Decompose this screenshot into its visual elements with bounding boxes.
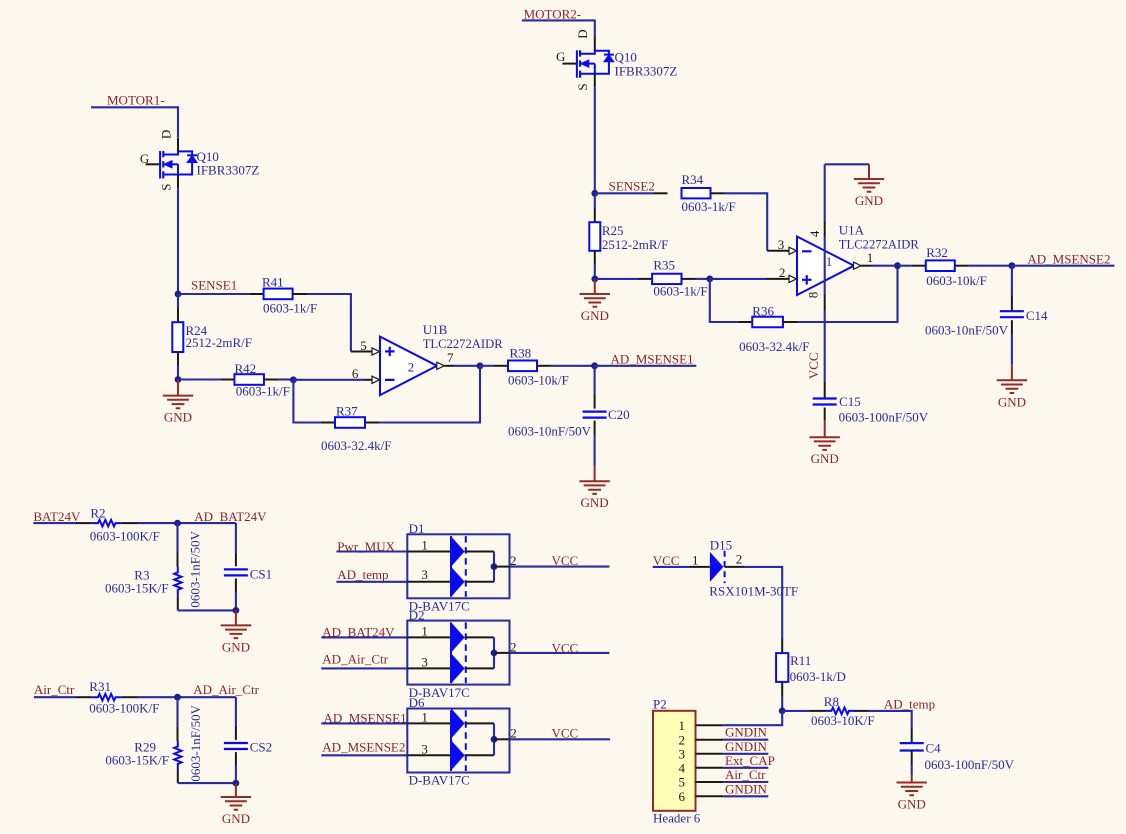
resistor R38	[480, 365, 494, 367]
svg-text:0603-1k/F: 0603-1k/F	[263, 300, 317, 315]
svg-text:Q10: Q10	[615, 50, 637, 65]
svg-text:0603-10nF/50V: 0603-10nF/50V	[508, 424, 592, 439]
svg-text:VCC: VCC	[552, 641, 579, 656]
svg-text:C20: C20	[608, 407, 630, 422]
svg-text:AD_MSENSE1: AD_MSENSE1	[611, 352, 694, 367]
svg-text:R11: R11	[790, 653, 811, 668]
svg-text:0603-1k/D: 0603-1k/D	[790, 669, 846, 684]
svg-text:VCC: VCC	[806, 352, 821, 379]
svg-text:0603-10k/F: 0603-10k/F	[926, 273, 987, 288]
svg-text:GNDIN: GNDIN	[725, 781, 767, 796]
svg-text:GND: GND	[898, 797, 926, 812]
node SENSE2 junction	[591, 190, 598, 197]
node CS1 bottom junction	[233, 607, 240, 614]
svg-text:D6: D6	[409, 695, 425, 710]
svg-text:Header 6: Header 6	[653, 811, 701, 826]
net label GNDIN at P2 pin 3	[723, 753, 768, 755]
svg-text:2: 2	[679, 732, 686, 747]
svg-text:GND: GND	[581, 495, 609, 510]
wire Air_Ctr net	[34, 696, 76, 698]
pin 3 of P2	[696, 753, 724, 755]
svg-text:VCC: VCC	[552, 726, 579, 741]
svg-text:G: G	[556, 49, 565, 64]
op-amp U1A TLC2272AIDR	[797, 237, 854, 296]
svg-text:AD_BAT24V: AD_BAT24V	[194, 509, 267, 524]
svg-text:R37: R37	[336, 404, 358, 419]
svg-text:R8: R8	[824, 694, 839, 709]
svg-text:5: 5	[360, 338, 367, 353]
svg-text:D-BAV17C: D-BAV17C	[409, 773, 470, 788]
wire AD_BAT24V to D2 pin1	[321, 636, 407, 638]
svg-text:Air_Ctr: Air_Ctr	[725, 767, 766, 782]
svg-text:C4: C4	[926, 741, 942, 756]
resistor R11	[781, 639, 783, 654]
diode D1 D-BAV17C	[407, 534, 509, 598]
svg-text:1: 1	[826, 254, 833, 269]
svg-text:0603-1nF/50V: 0603-1nF/50V	[188, 530, 203, 607]
resistor R34	[595, 192, 654, 194]
svg-text:2: 2	[736, 552, 743, 567]
svg-text:3: 3	[778, 237, 785, 252]
svg-text:GND: GND	[998, 394, 1026, 409]
capacitor CS1	[235, 523, 237, 553]
svg-text:Ext_CAP: Ext_CAP	[725, 753, 775, 768]
svg-text:C14: C14	[1026, 308, 1048, 323]
svg-text:0603-15K/F: 0603-15K/F	[105, 580, 169, 595]
node SENSE1 junction	[175, 291, 182, 298]
wire R41 to U1B pin5	[307, 294, 351, 352]
svg-text:R2: R2	[90, 505, 105, 520]
svg-text:SENSE2: SENSE2	[609, 179, 655, 194]
wire MOTOR1- net	[91, 107, 178, 137]
capacitor C15	[824, 382, 826, 399]
svg-text:0603-32.4k/F: 0603-32.4k/F	[321, 438, 391, 453]
resistor R36 feedback	[710, 279, 739, 322]
svg-text:2512-2mR/F: 2512-2mR/F	[602, 237, 668, 252]
wire VCC to D15	[653, 566, 690, 568]
resistor R24	[177, 294, 179, 308]
ground below R25	[594, 279, 596, 294]
svg-text:0603-1k/F: 0603-1k/F	[682, 199, 736, 214]
svg-text:R35: R35	[653, 258, 675, 273]
svg-text:CS2: CS2	[250, 739, 272, 754]
svg-text:R25: R25	[602, 223, 624, 238]
wire AD_MSENSE1 net	[595, 365, 697, 367]
svg-text:0603-100K/F: 0603-100K/F	[89, 701, 159, 716]
node AD_MSENSE2 junction	[1009, 262, 1016, 269]
wire AD_MSENSE2 to D6 pin3	[321, 754, 407, 756]
svg-text:0603-1nF/50V: 0603-1nF/50V	[188, 704, 203, 781]
svg-text:D: D	[158, 130, 173, 139]
pin 3 of U1A	[767, 250, 789, 252]
resistor R37 feedback	[293, 380, 321, 423]
svg-text:AD_Air_Ctr: AD_Air_Ctr	[322, 652, 388, 667]
diode D15 RSX101M-30TF	[690, 566, 710, 568]
wire Q10 source to SENSE1 node	[177, 188, 179, 294]
node AD_MSENSE1 junction	[591, 362, 598, 369]
resistor R8	[782, 710, 810, 712]
svg-text:3: 3	[421, 741, 428, 756]
resistor R32	[898, 265, 912, 267]
pin 8 of U1A	[824, 295, 826, 311]
svg-text:2: 2	[408, 359, 415, 374]
svg-text:GNDIN: GNDIN	[725, 725, 767, 740]
pin 2 of U1A	[766, 278, 789, 280]
capacitor C4	[911, 728, 913, 743]
svg-text:AD_MSENSE2: AD_MSENSE2	[322, 740, 405, 755]
svg-text:RSX101M-30TF: RSX101M-30TF	[709, 583, 798, 598]
pin 7 output of U1B	[437, 362, 445, 369]
svg-text:0603-1k/F: 0603-1k/F	[653, 284, 707, 299]
transistor Q10 (right MOSFET, IFBR3307Z)	[562, 63, 577, 65]
svg-text:S: S	[158, 183, 173, 190]
svg-text:SENSE1: SENSE1	[191, 278, 237, 293]
svg-text:CS1: CS1	[250, 567, 272, 582]
svg-text:1: 1	[421, 710, 428, 725]
svg-text:D: D	[575, 29, 590, 38]
svg-text:GND: GND	[855, 193, 883, 208]
svg-text:D15: D15	[710, 538, 732, 553]
wire to AD_Air_Ctr node	[137, 696, 236, 698]
svg-text:C15: C15	[839, 394, 861, 409]
transistor Q10 (left MOSFET, IFBR3307Z)	[146, 163, 161, 165]
pin 2 of P2	[696, 739, 724, 741]
svg-text:AD_temp: AD_temp	[337, 567, 388, 582]
pin 4 of U1A	[824, 222, 826, 237]
node U1B output junction	[477, 362, 484, 369]
diode D2 D-BAV17C	[407, 621, 509, 685]
wire SENSE1 to R41	[178, 293, 249, 295]
svg-text:0603-10K/F: 0603-10K/F	[811, 713, 875, 728]
wire D2 pin2 to VCC	[510, 652, 610, 654]
svg-text:S: S	[575, 83, 590, 90]
node SENSE2 low junction	[591, 276, 598, 283]
wire R42 to U1B pin6	[278, 378, 293, 380]
svg-text:R32: R32	[926, 245, 948, 260]
connector P2 Header 6	[653, 711, 696, 811]
wire D15 cathode down to R11	[744, 567, 782, 639]
node CS2 bottom junction	[233, 780, 240, 787]
svg-text:IFBR3307Z: IFBR3307Z	[197, 162, 260, 177]
svg-text:VCC: VCC	[552, 553, 579, 568]
svg-text:Air_Ctr: Air_Ctr	[34, 682, 75, 697]
wire D1 pin2 to VCC	[510, 566, 610, 568]
svg-text:3: 3	[421, 655, 428, 670]
svg-text:0603-10k/F: 0603-10k/F	[508, 372, 569, 387]
node R11 bottom junction	[779, 708, 786, 715]
wire to AD_BAT24V node	[137, 522, 236, 524]
wire AD_MSENSE2 net	[1012, 265, 1115, 267]
svg-text:R42: R42	[235, 361, 257, 376]
svg-text:6: 6	[679, 789, 686, 804]
pin 6 of U1B	[364, 379, 372, 381]
svg-text:0603-100nF/50V: 0603-100nF/50V	[925, 757, 1015, 772]
wire U1A power rail pin4 to GND	[825, 163, 869, 165]
capacitor C14	[1011, 266, 1013, 296]
svg-text:GND: GND	[811, 451, 839, 466]
svg-text:GND: GND	[164, 410, 192, 425]
svg-text:VCC: VCC	[653, 553, 680, 568]
svg-text:GND: GND	[222, 811, 250, 826]
ground above U1A	[868, 164, 870, 179]
wire Pwr_MUX net	[336, 550, 407, 552]
svg-text:2: 2	[779, 265, 786, 280]
ground below C4	[911, 775, 913, 783]
svg-text:6: 6	[352, 366, 359, 381]
svg-text:U1B: U1B	[423, 322, 448, 337]
resistor R42	[178, 378, 220, 380]
resistor R35	[595, 278, 638, 280]
svg-text:0603-100nF/50V: 0603-100nF/50V	[839, 410, 929, 425]
capacitor CS2	[235, 697, 237, 726]
svg-text:5: 5	[679, 775, 686, 790]
svg-text:IFBR3307Z: IFBR3307Z	[615, 64, 678, 79]
svg-text:D1: D1	[409, 521, 425, 536]
ground below C14	[1011, 364, 1013, 380]
svg-text:U1A: U1A	[839, 223, 865, 238]
wire D6 pin2 to VCC	[510, 738, 610, 740]
wire P2 pin1 to R11 node	[723, 711, 782, 725]
svg-text:4: 4	[807, 230, 822, 237]
svg-text:R41: R41	[262, 274, 284, 289]
svg-text:0603-15K/F: 0603-15K/F	[105, 753, 169, 768]
svg-text:0603-1k/F: 0603-1k/F	[236, 384, 290, 399]
wire R29 bottom to CS2 bottom	[178, 782, 236, 784]
svg-text:1: 1	[692, 553, 699, 568]
net label GNDIN at P2 pin 2	[723, 739, 768, 741]
svg-text:4: 4	[679, 760, 686, 775]
ground below C15	[824, 420, 826, 437]
wire U1A rail through amp	[824, 237, 826, 296]
svg-text:GNDIN: GNDIN	[725, 739, 767, 754]
svg-text:AD_Air_Ctr: AD_Air_Ctr	[193, 682, 259, 697]
pin 1 output of U1A	[854, 262, 862, 269]
wire AD_temp to D1 pin3	[336, 581, 407, 583]
node R35 output junction	[706, 276, 713, 283]
svg-text:GND: GND	[222, 639, 250, 654]
svg-text:0603-10nF/50V: 0603-10nF/50V	[925, 322, 1009, 337]
svg-text:G: G	[140, 151, 149, 166]
svg-text:AD_MSENSE2: AD_MSENSE2	[1027, 251, 1110, 266]
svg-text:R31: R31	[89, 679, 111, 694]
wire R35 to U1A pin2	[696, 278, 710, 280]
node AD_Air_Ctr junction	[174, 694, 181, 701]
svg-text:0603-32.4k/F: 0603-32.4k/F	[739, 339, 809, 354]
wire R8 to AD_temp	[868, 711, 912, 728]
svg-text:1: 1	[421, 624, 428, 639]
resistor R3	[176, 523, 178, 552]
svg-text:TLC2272AIDR: TLC2272AIDR	[839, 237, 919, 252]
ground symbol below R24	[177, 380, 179, 396]
svg-text:8: 8	[806, 292, 821, 299]
svg-text:R36: R36	[752, 304, 774, 319]
resistor R29	[176, 697, 178, 726]
svg-text:R38: R38	[510, 345, 532, 360]
resistor R41	[249, 293, 263, 295]
wire R34 to U1A pin3	[725, 193, 768, 251]
ground below CS2	[235, 783, 237, 797]
node feedback junction at R42 output	[290, 376, 297, 383]
svg-text:1: 1	[679, 718, 686, 733]
wire MOTOR2- net	[522, 20, 595, 37]
pin 4 of P2	[696, 767, 724, 769]
wire R3 bottom to CS1 bottom	[178, 609, 236, 611]
resistor R25	[594, 193, 596, 208]
capacitor C20	[594, 366, 596, 394]
svg-text:R34: R34	[682, 172, 704, 187]
svg-text:AD_temp: AD_temp	[884, 697, 935, 712]
svg-text:P2: P2	[653, 696, 667, 711]
ground below C20	[594, 466, 596, 482]
op-amp U1B TLC2272AIDR	[380, 337, 437, 396]
svg-text:3: 3	[421, 567, 428, 582]
svg-text:1: 1	[867, 250, 874, 265]
node SENSE1 low side junction	[175, 376, 182, 383]
wire U1B output	[454, 365, 481, 367]
wire rail to C15	[824, 311, 826, 383]
node U1A output junction	[894, 262, 901, 269]
pin 6 of P2	[696, 795, 724, 797]
pin 1 of P2	[696, 724, 724, 726]
svg-text:BAT24V: BAT24V	[33, 509, 81, 524]
svg-text:2512-2mR/F: 2512-2mR/F	[186, 335, 252, 350]
wire AD_MSENSE1 to D6 pin1	[321, 722, 407, 724]
net label Air_Ctr at P2 pin 5	[723, 781, 768, 783]
resistor R2	[76, 522, 92, 524]
svg-text:0603-100K/F: 0603-100K/F	[90, 528, 160, 543]
net label GNDIN at P2 pin 6	[723, 795, 768, 797]
wire BAT24V net	[33, 522, 76, 524]
resistor R31	[76, 696, 92, 698]
svg-text:1: 1	[421, 538, 428, 553]
svg-text:7: 7	[447, 350, 454, 365]
svg-text:GND: GND	[581, 308, 609, 323]
svg-text:D2: D2	[409, 607, 425, 622]
wire AD_Air_Ctr to D2 pin3	[321, 667, 407, 669]
svg-text:TLC2272AIDR: TLC2272AIDR	[423, 336, 503, 351]
svg-text:3: 3	[679, 746, 686, 761]
pin 5 of U1B	[351, 351, 372, 353]
wire Q10 source to SENSE2 node	[594, 88, 596, 194]
net label Ext_CAP at P2 pin 4	[723, 767, 768, 769]
pin 5 of P2	[696, 781, 724, 783]
node AD_BAT24V junction	[174, 520, 181, 527]
diode D6 D-BAV17C	[407, 709, 509, 773]
ground below CS1	[235, 610, 237, 625]
wire U1A output	[871, 265, 898, 267]
svg-text:MOTOR1-: MOTOR1-	[107, 92, 165, 107]
